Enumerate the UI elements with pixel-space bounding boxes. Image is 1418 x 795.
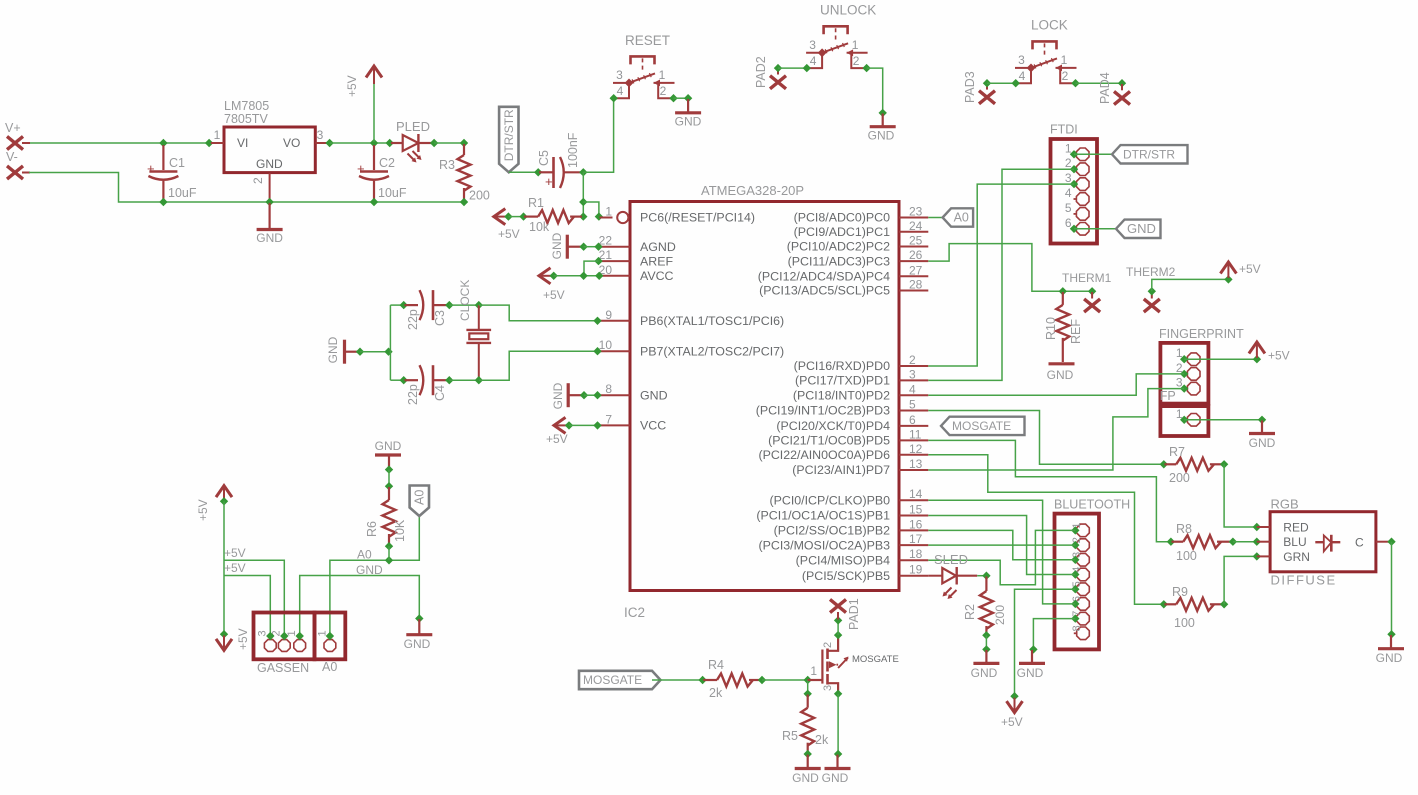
pin 6 FTDI pad: [1076, 223, 1089, 236]
junction FP pin1: [1180, 355, 1188, 363]
svg-text:R10: R10: [1044, 317, 1058, 340]
svg-text:8: 8: [1071, 625, 1083, 631]
svg-text:GND: GND: [1017, 666, 1044, 680]
pin 1 GASSEN pad: [294, 640, 306, 652]
junction C1 ground: [159, 198, 167, 206]
wire PLED to R3: [434, 142, 464, 144]
svg-text:PAD4: PAD4: [1098, 72, 1112, 104]
resistor R5 2k: [807, 695, 809, 708]
resistor R8 100: [1172, 541, 1184, 543]
svg-text:(PCI10/ADC2)PC2: (PCI10/ADC2)PC2: [787, 240, 890, 254]
junction R9 right: [1220, 600, 1228, 608]
svg-text:+5V: +5V: [196, 499, 210, 521]
svg-text:CLOCK: CLOCK: [458, 280, 472, 321]
svg-text:28: 28: [909, 278, 923, 292]
svg-text:DTR/STR: DTR/STR: [1123, 148, 1175, 162]
ground GND r5: [807, 755, 809, 769]
svg-text:(PCI17/TXD)PD1: (PCI17/TXD)PD1: [795, 374, 890, 388]
svg-text:6: 6: [909, 413, 916, 427]
svg-text:R1: R1: [528, 196, 544, 210]
svg-text:(PCI8/ADC0)PC0: (PCI8/ADC0)PC0: [794, 211, 891, 225]
svg-text:3: 3: [616, 68, 623, 82]
svg-text:10k: 10k: [529, 220, 550, 234]
junction crystal bottom: [475, 376, 483, 384]
junction reset ground: [684, 94, 692, 102]
svg-text:5: 5: [1071, 581, 1083, 587]
junction gate node: [804, 676, 812, 684]
junction drain lower: [834, 631, 842, 639]
junction PAD3: [983, 79, 991, 87]
ground GND regulator: [269, 203, 271, 230]
pad PAD2 X mark: [770, 76, 786, 89]
pad V+ X mark: [7, 136, 23, 149]
junction V+ at regulator pin1: [205, 139, 213, 147]
ground GND pin8: [568, 394, 583, 396]
wire +5V arrow stem: [373, 84, 375, 142]
svg-text:+5V: +5V: [224, 546, 246, 560]
junction THERM2 +5V: [1224, 275, 1232, 283]
svg-text:10uF: 10uF: [378, 186, 407, 200]
svg-text:(PCI11/ADC3)PC3: (PCI11/ADC3)PC3: [788, 254, 890, 268]
junction PLED cathode: [430, 139, 438, 147]
junction source lower: [834, 750, 842, 758]
svg-text:100nF: 100nF: [566, 132, 580, 168]
svg-text:3: 3: [1071, 552, 1083, 558]
wire net V- to ground rail: [29, 173, 464, 203]
svg-text:R3: R3: [439, 158, 455, 172]
svg-text:UNLOCK: UNLOCK: [820, 3, 876, 18]
junction C5 right: [579, 168, 587, 176]
svg-text:1: 1: [659, 68, 666, 82]
junction PAD4: [1118, 79, 1126, 87]
junction IC pin1 connection: [595, 212, 603, 220]
junction a0 pin1: [326, 632, 334, 640]
pin 2 FTDI pad: [1076, 163, 1089, 176]
label flag A0 pin23: [943, 208, 974, 226]
svg-text:R6: R6: [365, 521, 379, 537]
pin 1 regulator: [211, 142, 224, 144]
svg-text:2: 2: [1071, 537, 1083, 543]
junction gassen pin1: [296, 632, 304, 640]
svg-text:7: 7: [1071, 611, 1083, 617]
svg-text:4: 4: [810, 54, 817, 68]
pin 3 GASSEN pad: [264, 640, 276, 652]
svg-text:GND: GND: [1127, 221, 1156, 236]
junction lock pin4: [1012, 79, 1020, 87]
junction R6 gnd: [385, 465, 393, 473]
junction R3 bottom: [460, 198, 468, 206]
wire +5V to gassen pin3: [224, 576, 270, 637]
svg-text:GND: GND: [375, 439, 402, 453]
wire pin19 to SLED: [928, 575, 942, 577]
svg-text:C3: C3: [433, 310, 447, 326]
svg-text:(PCI12/ADC4/SDA)PC4: (PCI12/ADC4/SDA)PC4: [758, 270, 890, 284]
wire R2 to ground: [985, 635, 987, 649]
ground GND pin22 AGND: [567, 246, 583, 248]
wire MOSGATE flag to R4: [652, 679, 702, 681]
svg-text:+5V: +5V: [1268, 349, 1290, 363]
svg-text:23: 23: [909, 205, 923, 219]
svg-text:2: 2: [909, 353, 916, 367]
wire THERM2 to +5V: [1152, 279, 1229, 291]
ground GND gassen: [418, 619, 420, 635]
svg-text:(PCI9/ADC1)PC1: (PCI9/ADC1)PC1: [794, 225, 891, 239]
wire lock pin2 to PAD4: [1076, 82, 1123, 84]
svg-text:PAD1: PAD1: [847, 598, 861, 630]
wire PAD2 to unlock pin4: [778, 67, 807, 69]
pad V- X mark: [7, 166, 23, 179]
svg-text:22p: 22p: [406, 384, 420, 405]
svg-text:(PCI2/SS/OC1B)PB2: (PCI2/SS/OC1B)PB2: [774, 524, 890, 538]
ground GND reset: [687, 99, 689, 113]
junction C3 left: [400, 301, 408, 309]
svg-text:18: 18: [909, 547, 923, 561]
pin 3 IC2 (PCI17/TXD)PD1: [899, 379, 928, 381]
junction gassen pin2: [280, 632, 288, 640]
wire R4 to gate: [762, 679, 808, 681]
svg-text:100: 100: [1176, 549, 1197, 563]
wire net FP-TX pin13 to FP pin3: [928, 389, 1184, 470]
junction R5 bottom: [804, 750, 812, 758]
svg-text:1: 1: [1061, 53, 1068, 67]
junction AGND a: [579, 243, 587, 251]
svg-text:19: 19: [909, 563, 923, 577]
svg-text:GND: GND: [1376, 651, 1403, 665]
junction clock rail mid: [384, 348, 392, 356]
pad PAD3 X mark: [979, 91, 995, 104]
junction +5V R1: [504, 212, 512, 220]
junction BT pin3: [1071, 556, 1079, 564]
pin 2 regulator: [269, 173, 271, 201]
svg-text:VCC: VCC: [640, 419, 666, 433]
junction regulator pin2 ground: [265, 198, 273, 206]
svg-text:VI: VI: [237, 136, 248, 150]
supply +5V arrow at R1: [494, 209, 506, 225]
junction pin1 net upper: [579, 198, 587, 206]
svg-text:FTDI: FTDI: [1050, 123, 1078, 137]
ground GND unlock: [882, 114, 884, 127]
wire net GND gassen: [300, 576, 420, 637]
wire unlock pin2 to ground: [867, 68, 883, 113]
junction pin10: [593, 347, 601, 355]
junction R10 top: [1059, 287, 1067, 295]
junction unlock pin4: [803, 64, 811, 72]
svg-text:RESET: RESET: [625, 33, 670, 48]
pin 3 BLUETOOTH pad: [1077, 554, 1090, 567]
pin 2 FINGERPRINT pad: [1187, 368, 1200, 381]
junction crystal top: [475, 301, 483, 309]
pin RED stub: [1257, 526, 1270, 528]
supply +5V arrow BT: [1007, 701, 1023, 713]
svg-text:4: 4: [1019, 69, 1026, 83]
resistor R4 2k: [703, 679, 717, 681]
junction R7 right: [1220, 460, 1228, 468]
connector J1 FTDI box: [1051, 139, 1098, 244]
wire C3 to crystal: [449, 304, 479, 306]
pin 4 FTDI pad: [1076, 193, 1089, 206]
svg-text:5: 5: [909, 398, 916, 412]
svg-text:PLED: PLED: [396, 119, 430, 134]
svg-text:GND: GND: [256, 157, 283, 171]
pin 21 IC2 AREF: [600, 260, 631, 262]
label flag MOSGATE pin6: [941, 417, 1025, 435]
pad PAD1 X mark: [830, 599, 846, 612]
pin 10 IC2 PB7(XTAL2/TOSC2/PCI7): [600, 350, 631, 352]
wire crystal top to pin9: [479, 305, 598, 321]
svg-text:V-: V-: [6, 150, 18, 164]
pin 8 BLUETOOTH pad: [1077, 627, 1090, 640]
wire C4 to crystal bottom: [449, 379, 479, 381]
junction gassen ground: [415, 614, 423, 622]
svg-text:C: C: [1355, 536, 1364, 550]
wire net V+ input: [29, 142, 209, 144]
capacitor C1: [162, 145, 164, 170]
svg-text:25: 25: [909, 234, 923, 248]
svg-text:C2: C2: [379, 156, 395, 170]
connector J3 FP box: [1160, 406, 1208, 436]
svg-text:14: 14: [909, 487, 923, 501]
svg-text:1: 1: [810, 664, 817, 678]
pin 8 IC2 GND: [600, 394, 631, 396]
pin 1 FP pad: [1187, 414, 1200, 427]
svg-text:(PCI0/ICP/CLKO)PB0: (PCI0/ICP/CLKO)PB0: [769, 493, 890, 507]
svg-text:PAD2: PAD2: [754, 56, 768, 88]
svg-text:11: 11: [909, 427, 922, 441]
svg-text:(PCI23/AIN1)PD7: (PCI23/AIN1)PD7: [792, 463, 890, 477]
capacitor C4 22p: [405, 379, 419, 381]
junction reset pin4: [610, 94, 618, 102]
junction FP pin2: [1180, 370, 1188, 378]
svg-text:4: 4: [1065, 186, 1072, 200]
svg-text:R9: R9: [1172, 585, 1188, 599]
svg-text:GASSEN: GASSEN: [257, 661, 309, 675]
resistor R1 10k: [524, 216, 538, 218]
wire net RXD ic pin2 to FTDI pin3: [928, 184, 1074, 366]
capacitor C2: [373, 145, 375, 170]
wire PAD3 to lock pin4: [987, 82, 1016, 84]
ground GND bt: [1031, 650, 1033, 663]
wire net ADC3 pin26 to THERM1: [928, 244, 1092, 292]
wire FTDI pin1 to flag: [1074, 153, 1112, 155]
junction V+ at C1: [159, 139, 167, 147]
svg-text:GND: GND: [1047, 368, 1074, 382]
junction PLED anode: [386, 139, 394, 147]
svg-text:FP: FP: [1160, 389, 1176, 403]
svg-text:7: 7: [605, 412, 612, 426]
junction AVCC c: [595, 272, 603, 280]
junction gassen +5V bottom: [220, 630, 228, 638]
junction RED pin: [1253, 523, 1261, 531]
svg-text:GND: GND: [404, 637, 431, 651]
svg-text:27: 27: [909, 263, 923, 277]
pin 2 BLUETOOTH pad: [1077, 539, 1090, 552]
svg-text:16: 16: [909, 517, 923, 531]
svg-text:MOSGATE: MOSGATE: [952, 419, 1011, 433]
svg-text:(PCI13/ADC5/SCL)PC5: (PCI13/ADC5/SCL)PC5: [759, 284, 890, 298]
resistor R10 REF: [1062, 292, 1064, 305]
resistor R3 200: [463, 144, 465, 155]
svg-text:2k: 2k: [709, 686, 723, 700]
wire R9 to GRN: [1224, 556, 1256, 604]
junction C5 left: [534, 168, 542, 176]
diode symbol inside RGB: [1315, 541, 1324, 543]
junction R1 right: [579, 212, 587, 220]
svg-text:10uF: 10uF: [168, 186, 197, 200]
wire gassen +5V rail: [223, 501, 225, 634]
junction C2 ground: [370, 198, 378, 206]
pin 9 IC2 PB6(XTAL1/TOSC1/PCI6): [600, 320, 631, 322]
svg-text:6: 6: [1065, 216, 1072, 230]
supply +5V arrow gassen bottom: [216, 639, 232, 651]
junction BT +5V stem: [1010, 692, 1018, 700]
junction VCC b: [593, 421, 601, 429]
ground GND rgb: [1390, 635, 1392, 649]
svg-text:2: 2: [251, 177, 265, 184]
capacitor C3 22p: [405, 304, 419, 306]
pin 2 IC2 (PCI16/RXD)PD0: [899, 365, 928, 367]
ground GND R10: [1049, 362, 1075, 365]
svg-text:(PCI19/INT1/OC2B)PD3: (PCI19/INT1/OC2B)PD3: [756, 404, 890, 418]
junction BT pin2: [1071, 541, 1079, 549]
svg-text:AGND: AGND: [640, 240, 676, 254]
junction R7 left: [1160, 460, 1168, 468]
svg-text:GND: GND: [675, 115, 702, 129]
label flag MOSGATE bottom: [579, 671, 661, 689]
wire clock gnd to rail: [360, 351, 390, 353]
junction BT pin4: [1071, 570, 1079, 578]
pin 1 A0 pad: [324, 640, 336, 652]
svg-text:+5V: +5V: [546, 432, 568, 446]
junction FP2 pin1: [1180, 416, 1188, 424]
pin 26 IC2 (PCI11/ADC3)PC3: [899, 260, 928, 262]
supply +5V arrow gassen top: [216, 486, 232, 498]
wire +5V to BT5: [1015, 589, 1076, 695]
pin 11 IC2 (PCI21/T1/OC0B)PD5: [899, 439, 928, 441]
svg-text:2k: 2k: [815, 733, 829, 747]
wire C to ground: [1391, 542, 1393, 635]
wire SLED to junction: [977, 575, 986, 577]
wire net OC0B pin11 to R8: [928, 440, 1170, 541]
ground GND mosfet: [836, 755, 838, 769]
wire R6 gnd: [388, 470, 390, 486]
svg-text:(PCI16/RXD)PD0: (PCI16/RXD)PD0: [794, 359, 891, 373]
pin 25 IC2 (PCI10/ADC2)PC2: [899, 246, 928, 248]
svg-text:DTR/STR: DTR/STR: [502, 109, 516, 161]
svg-text:PB6(XTAL1/TOSC1/PCI6): PB6(XTAL1/TOSC1/PCI6): [640, 314, 784, 328]
junction THERM2 pad: [1148, 287, 1156, 295]
junction R8 right: [1229, 538, 1237, 546]
svg-text:GND: GND: [640, 388, 668, 402]
wire C5 junction down to pin1 net: [582, 172, 584, 216]
wire net INT0 pin4 to FP pin2: [928, 374, 1184, 395]
wire drain: [837, 620, 839, 635]
junction FP pin3: [1180, 384, 1188, 392]
resistor R7 200: [1165, 463, 1177, 465]
junction R3 top: [460, 139, 468, 147]
pin 3 FINGERPRINT pad: [1187, 382, 1200, 395]
pin 22 IC2 AGND: [600, 246, 631, 248]
wire GND pin8: [584, 394, 598, 396]
svg-text:+: +: [147, 161, 155, 176]
pad THERM2 X mark: [1144, 299, 1160, 312]
svg-text:BLUETOOTH: BLUETOOTH: [1054, 498, 1130, 512]
svg-text:4: 4: [617, 84, 624, 98]
pin 7 IC2 VCC: [600, 424, 631, 426]
svg-text:FINGERPRINT: FINGERPRINT: [1159, 327, 1244, 341]
junction lock pin2: [1071, 79, 1079, 87]
svg-text:AVCC: AVCC: [640, 269, 674, 283]
svg-text:4: 4: [1071, 567, 1083, 573]
supply +5V arrow THERM2: [1220, 262, 1236, 274]
svg-text:24: 24: [909, 219, 923, 233]
svg-text:R7: R7: [1169, 445, 1185, 459]
wire AREF to AVCC net: [584, 261, 599, 276]
junction pin9: [593, 317, 601, 325]
svg-text:(PCI1/OC1A/OC1S)PB1: (PCI1/OC1A/OC1S)PB1: [756, 509, 890, 523]
svg-text:GND: GND: [971, 666, 998, 680]
svg-text:SLED: SLED: [934, 552, 968, 567]
wire jog to IC pin1: [583, 202, 599, 217]
junction +5V at C2: [370, 139, 378, 147]
svg-text:RGB: RGB: [1271, 497, 1299, 512]
svg-text:1: 1: [852, 38, 859, 52]
wire FP pin1 to +5V: [1184, 358, 1257, 360]
svg-text:12: 12: [909, 442, 923, 456]
pin 18 IC2 (PCI4/MISO)PB4: [899, 559, 928, 561]
wire reset pin2 to ground: [674, 97, 689, 99]
LED PLED: [391, 142, 403, 144]
svg-text:(PCI4/MISO)PB4: (PCI4/MISO)PB4: [796, 553, 890, 567]
junction C ground: [1387, 630, 1395, 638]
junction A0 at R6: [385, 556, 393, 564]
svg-text:13: 13: [909, 457, 923, 471]
svg-text:3: 3: [822, 685, 834, 691]
svg-text:A0: A0: [413, 490, 427, 505]
connector J2 FINGERPRINT box: [1160, 343, 1208, 404]
pin 19 IC2 (PCI5/SCK)PB5: [899, 575, 928, 577]
junction R6 top lead: [385, 482, 393, 490]
svg-text:MOSGATE: MOSGATE: [583, 673, 642, 687]
svg-text:BLU: BLU: [1283, 535, 1306, 549]
svg-text:2: 2: [660, 84, 667, 98]
wire clock left rail: [389, 305, 391, 380]
junction THERM1 pad: [1088, 287, 1096, 295]
svg-text:A0: A0: [954, 211, 969, 225]
svg-text:C4: C4: [433, 385, 447, 401]
svg-text:3: 3: [317, 128, 324, 142]
wire FP pin to ground: [1184, 419, 1262, 421]
svg-text:3: 3: [1018, 53, 1025, 67]
wire FTDI pin6 to flag: [1074, 228, 1116, 230]
svg-text:A0: A0: [357, 548, 372, 562]
svg-text:1: 1: [1071, 522, 1083, 528]
junction FTDI pin1: [1070, 150, 1078, 158]
wire net OC2B pin5 to R7: [928, 411, 1163, 465]
wire C5 to reset switch riser: [583, 99, 613, 172]
junction AREF: [594, 257, 602, 265]
pad PAD4 X mark: [1114, 91, 1130, 104]
svg-text:R5: R5: [782, 729, 798, 743]
wire net TXD ic pin3 to FTDI pin2: [928, 169, 1074, 380]
supply +5V arrow VCC: [554, 417, 566, 433]
junction BT pin1: [1071, 526, 1079, 534]
svg-text:200: 200: [993, 605, 1007, 625]
pin 7 BLUETOOTH pad: [1077, 612, 1090, 625]
junction C pin: [1387, 538, 1395, 546]
wire +5V to R1: [508, 216, 523, 218]
pin 4 BLUETOOTH pad: [1077, 568, 1090, 581]
svg-text:GND: GND: [256, 231, 283, 245]
